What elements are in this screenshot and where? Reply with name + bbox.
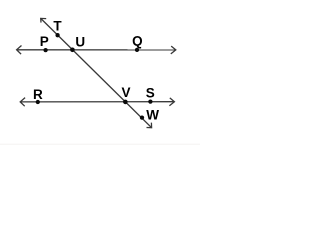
line PQ (upper parallel line) [17,49,176,51]
arrowhead top end of transversal [41,18,47,22]
point R dot [36,100,40,104]
svg-text:R: R [33,87,43,102]
svg-text:P: P [40,34,49,49]
svg-text:T: T [53,18,62,33]
point U dot (intersection of PQ and transversal) [70,48,75,53]
faint bottom edge [0,144,200,145]
line RS (lower parallel line) [20,101,174,103]
svg-text:S: S [146,86,155,101]
point P dot [43,48,47,52]
arrowhead left end of line PQ [17,46,22,55]
svg-text:W: W [146,108,159,123]
arrowhead right end of line RS [169,98,174,106]
svg-text:U: U [75,35,85,50]
svg-text:V: V [121,85,130,100]
point T dot (on transversal) [55,33,59,37]
transversal line TW [41,18,152,127]
arrowhead left end of line RS [20,98,25,107]
point V dot (intersection of RS and transversal) [123,100,128,105]
arrowhead right end of line PQ [171,46,176,54]
point S dot [148,99,152,103]
point W dot (on transversal) [140,115,144,119]
arrowhead bottom end of transversal [147,123,152,128]
point Q dot [135,48,139,52]
svg-text:Q: Q [132,33,143,48]
